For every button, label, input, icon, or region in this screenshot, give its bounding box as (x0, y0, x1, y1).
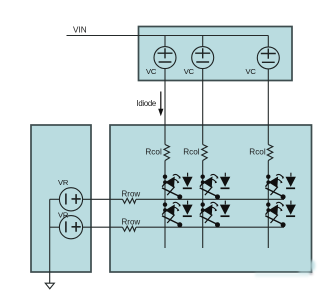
voltage source VR1 (59, 188, 82, 211)
LED pair column1 row1 (162, 173, 193, 200)
wire VR2 to ground rail (50, 226, 60, 228)
svg-text:Rcol: Rcol (183, 148, 200, 157)
wire stub VIN to VC3 (267, 36, 269, 48)
resistor Rrow1 (123, 198, 137, 203)
current arrow Idiode (158, 92, 163, 117)
LED pair column3 row2 (265, 201, 296, 228)
svg-text:Rcol: Rcol (249, 148, 266, 157)
LED pair column1 row2 (162, 201, 193, 228)
wire row 2 (83, 226, 284, 228)
wire stub VIN to VC1 (164, 36, 166, 47)
wire column 3 through matrix (267, 161, 269, 249)
voltage source VC2 (192, 47, 214, 69)
ground (45, 283, 54, 289)
svg-text:VR: VR (58, 211, 69, 220)
wire column 2 from VC2 to Rcol2 (202, 69, 204, 145)
LED pair column2 row2 (200, 201, 231, 228)
module box: VC column driver block (139, 27, 293, 81)
svg-text:VIN: VIN (73, 26, 87, 35)
wire VIN bus (67, 35, 269, 37)
resistor Rcol3 (267, 145, 273, 161)
corner blur artifact of LED matrix box (255, 260, 315, 277)
resistor Rrow2 (123, 226, 137, 231)
svg-text:VR: VR (58, 178, 69, 187)
wire column 2 through matrix (202, 161, 204, 249)
wire stub VIN to VC2 (202, 36, 204, 47)
svg-text:Idiode: Idiode (137, 99, 156, 108)
svg-text:Rrow: Rrow (122, 217, 141, 226)
svg-text:VC: VC (146, 67, 157, 76)
svg-text:VC: VC (246, 67, 257, 76)
wire row 1 (83, 198, 284, 200)
wire column 1 from VC1 to Rcol1 (164, 69, 166, 145)
voltage source VC3 (257, 47, 279, 69)
LED pair column3 row1 (265, 173, 296, 200)
wire ground rail vertical (49, 199, 51, 283)
wire column 1 through matrix (164, 161, 166, 249)
svg-text:Rcol: Rcol (145, 148, 162, 157)
wire VR1 to ground rail (50, 198, 60, 200)
voltage source VC1 (154, 47, 176, 69)
module box: VR row driver block (31, 125, 91, 272)
svg-text:VC: VC (184, 67, 195, 76)
module box: LED matrix block (110, 125, 312, 272)
svg-text:Rrow: Rrow (122, 190, 141, 199)
wire column 3 from VC3 to Rcol3 (267, 69, 269, 145)
LED pair column2 row1 (200, 173, 231, 200)
resistor Rcol2 (202, 145, 208, 161)
voltage source VR2 (59, 216, 82, 239)
resistor Rcol1 (164, 145, 170, 161)
